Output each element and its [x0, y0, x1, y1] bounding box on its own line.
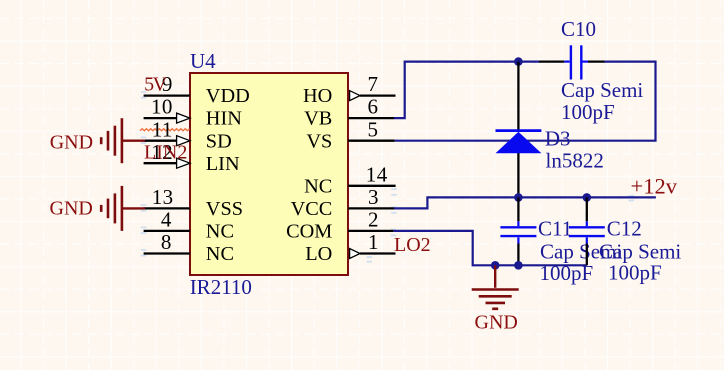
pin 10 HIN	[144, 95, 243, 130]
svg-text:VS: VS	[306, 130, 332, 152]
pin 9 VDD	[144, 72, 250, 107]
svg-text:SD: SD	[206, 130, 232, 152]
capacitor C10 pins	[539, 60, 604, 62]
svg-text:NC: NC	[206, 243, 234, 265]
svg-text:GND: GND	[50, 198, 93, 220]
pin 1 LO	[305, 230, 395, 265]
pin 2 COM	[286, 208, 393, 243]
svg-text:U4: U4	[190, 49, 216, 73]
power ground GND (upper left)	[50, 118, 145, 163]
svg-text:100pF: 100pF	[608, 261, 662, 285]
pin 11 SD	[144, 117, 232, 152]
svg-text:Cap Semi: Cap Semi	[561, 78, 643, 102]
svg-text:100pF: 100pF	[561, 100, 615, 124]
designator D3	[545, 126, 571, 150]
designator U4	[190, 49, 216, 73]
power ground GND (lower left)	[50, 186, 146, 231]
designator C10	[561, 17, 596, 41]
svg-text:1: 1	[368, 230, 379, 254]
capacitor C12 body	[569, 221, 605, 243]
power ground GND (bottom)	[472, 265, 519, 333]
svg-text:100pF: 100pF	[540, 261, 594, 285]
wire VCC to +12v rail	[394, 197, 656, 208]
capacitor C10 body	[564, 45, 588, 79]
designator C12	[607, 217, 642, 241]
svg-text:8: 8	[161, 230, 172, 254]
C12 value 100pF	[608, 261, 662, 285]
svg-text:13: 13	[152, 185, 174, 209]
designator C11	[538, 217, 572, 241]
pin 12 LIN	[144, 140, 240, 175]
svg-text:+12v: +12v	[631, 174, 678, 199]
svg-text:GND: GND	[50, 131, 93, 153]
svg-text:COM: COM	[286, 221, 332, 243]
svg-text:HIN: HIN	[206, 108, 242, 130]
diode D3 pins	[517, 62, 519, 198]
svg-text:VCC: VCC	[291, 198, 333, 220]
svg-text:NC: NC	[304, 175, 332, 197]
junction +12v rail / C12	[583, 193, 592, 202]
wire COM to ground rail	[393, 231, 586, 265]
junction on bootstrap rail	[514, 57, 523, 66]
svg-text:VB: VB	[304, 108, 332, 130]
svg-text:LIN: LIN	[206, 153, 240, 175]
svg-text:VSS: VSS	[206, 198, 243, 220]
C10 type Cap Semi	[561, 78, 643, 102]
C11 value 100pF	[540, 261, 594, 285]
svg-text:GND: GND	[475, 312, 518, 334]
wire VS / C10 right side	[395, 62, 656, 141]
svg-text:C11: C11	[538, 217, 572, 241]
svg-text:2: 2	[368, 208, 379, 232]
svg-text:ln5822: ln5822	[546, 149, 604, 173]
svg-text:LO2: LO2	[394, 234, 431, 256]
capacitor C11 body	[500, 221, 536, 243]
svg-text:14: 14	[366, 162, 388, 186]
pin 4 NC	[144, 208, 234, 243]
svg-text:5: 5	[368, 117, 379, 141]
pin 6 VB	[304, 95, 394, 130]
pin 7 HO	[303, 72, 395, 107]
svg-text:NC: NC	[206, 221, 234, 243]
svg-text:6: 6	[368, 95, 379, 119]
selection grips (light blue)	[141, 91, 634, 262]
svg-text:C10: C10	[561, 17, 596, 41]
pin 14 NC	[304, 162, 395, 197]
junction ground rail / GND stem	[491, 261, 500, 270]
svg-text:7: 7	[368, 72, 379, 96]
C12 type Cap Semi	[599, 240, 681, 264]
net label LIN2	[144, 142, 187, 164]
svg-text:3: 3	[368, 185, 379, 209]
wire VB to bootstrap rail	[394, 62, 540, 119]
svg-text:LO: LO	[305, 243, 332, 265]
net label LO2	[394, 234, 431, 256]
ERC marker zigzag	[140, 129, 189, 131]
diode D3 body	[496, 131, 542, 154]
svg-text:C12: C12	[607, 217, 642, 241]
svg-text:VDD: VDD	[206, 85, 250, 107]
C10 value 100pF	[561, 100, 615, 124]
capacitor C11 pins	[517, 197, 519, 265]
junction ground rail / C11	[514, 261, 523, 270]
capacitor C12 pins	[586, 197, 588, 265]
svg-text:HO: HO	[303, 85, 332, 107]
svg-text:D3: D3	[545, 126, 571, 150]
svg-text:4: 4	[161, 208, 172, 232]
pin 5 VS	[306, 117, 394, 152]
C11 type Cap Semi	[540, 240, 622, 264]
svg-text:5V: 5V	[144, 74, 168, 96]
power label +12v	[631, 174, 678, 199]
IC U4 IR2110 body	[190, 73, 348, 275]
svg-text:11: 11	[152, 117, 173, 141]
svg-text:IR2110: IR2110	[190, 275, 252, 299]
value ln5822	[546, 149, 604, 173]
pin 8 NC	[144, 230, 234, 265]
pin 13 VSS	[144, 185, 243, 220]
svg-text:LIN2: LIN2	[144, 142, 187, 164]
net label 5V	[144, 74, 168, 96]
part value IR2110	[190, 275, 252, 299]
pin 3 VCC	[291, 185, 394, 220]
junction +12v rail / D3 anode	[514, 193, 523, 202]
svg-text:10: 10	[151, 95, 173, 119]
